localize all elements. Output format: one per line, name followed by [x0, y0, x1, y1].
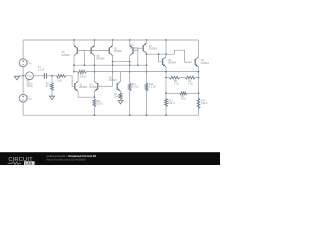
voltage source V1 8.4V: [19, 59, 27, 67]
node T2c on LL: [94, 71, 96, 73]
node T3c on LL: [112, 71, 114, 73]
wire T3 collector column: [112, 55, 114, 86]
wire T5 base: [138, 47, 143, 49]
node T4c on LL: [129, 71, 131, 73]
wire T4T5 base column down: [137, 48, 139, 65]
node T5 col on AB: [146, 64, 148, 66]
resistor R9 6.8k: [78, 70, 87, 73]
wire R10 to rail: [93, 107, 95, 115]
resistor R5 47k vertical: [51, 83, 54, 91]
node Q8 collector cross: [165, 53, 167, 55]
svg-text:8.4 V: 8.4 V: [27, 99, 33, 101]
label V1 value: [27, 61, 33, 66]
wire Q8 base: [159, 54, 163, 62]
transistor Q7 pnp: [143, 43, 146, 53]
transistor Q3 pnp: [109, 45, 112, 55]
node T1c on AB: [73, 64, 75, 66]
wire base tap down: [83, 51, 85, 66]
node R10 rail: [94, 114, 96, 116]
wire T1 collector column: [73, 55, 75, 71]
wire Q8 collector to rail: [165, 40, 167, 57]
node rail T3 emitter: [112, 39, 114, 41]
wire T5 collector column: [146, 53, 148, 115]
label R5 value: [46, 83, 52, 88]
wire mid node to ground stub: [19, 75, 24, 77]
svg-text:2N3906: 2N3906: [62, 55, 71, 57]
label R10 value: [97, 101, 103, 106]
wire T6 collector up: [77, 72, 79, 82]
wire V3 to C7: [33, 75, 44, 77]
resistor R10 tail: [93, 99, 96, 107]
wire long line seg1: [74, 71, 78, 73]
resistor R14 100: [197, 98, 200, 109]
label R13 value: [168, 101, 174, 106]
wire R8 R3 link: [180, 77, 186, 79]
wire rail to T1 emitter: [73, 40, 75, 46]
resistor R6 1k horizontal: [56, 74, 66, 77]
node rail T4 emitter: [129, 39, 131, 41]
resistor R13 100: [165, 99, 168, 107]
node rail T5 emitter: [146, 39, 148, 41]
node T4c on A2: [129, 61, 131, 63]
label R7 value: [114, 94, 120, 99]
label Q2b: [109, 77, 118, 82]
label C7 value: [38, 67, 45, 71]
label Q7: [149, 46, 158, 51]
wire rail to T3 emitter: [112, 40, 114, 46]
svg-text:R13: R13: [168, 101, 173, 103]
svg-text:1 kΩ: 1 kΩ: [174, 84, 179, 86]
wire T2 collector column: [93, 55, 95, 81]
label R8 value: [174, 81, 179, 86]
transistor Q8 npn: [163, 57, 166, 67]
node T4c on AB: [129, 64, 131, 66]
wire long line seg2: [87, 71, 199, 73]
node R11 rail: [129, 114, 131, 116]
svg-text:R10: R10: [97, 101, 102, 103]
svg-text:6.8 kΩ: 6.8 kΩ: [80, 76, 87, 78]
svg-text:1kHz): 1kHz): [27, 86, 33, 88]
transistor Q6 pnp: [91, 45, 94, 55]
wire T8 collector up: [120, 72, 122, 82]
label R12 value: [149, 84, 156, 89]
svg-text:R12: R12: [149, 84, 154, 86]
wire T6 emitter down: [78, 91, 94, 97]
signal source V3 sine: [26, 72, 34, 80]
svg-text:2.2 kΩ: 2.2 kΩ: [132, 87, 139, 89]
wire base line row1: [77, 50, 109, 52]
node tail junction: [94, 96, 96, 98]
wire rail to T2 emitter: [93, 40, 95, 46]
node Q8c rail: [165, 39, 167, 41]
svg-text:2N3906: 2N3906: [114, 51, 123, 53]
label R3 value: [188, 81, 193, 86]
svg-text:220 Ω: 220 Ω: [97, 104, 103, 106]
svg-text:0.1 µF: 0.1 µF: [38, 69, 45, 71]
wire rail to T5 emitter: [146, 40, 148, 43]
transistor Q9 npn output: [195, 57, 198, 67]
wire V1 to mid node: [22, 67, 24, 95]
label Q8: [168, 60, 177, 65]
transistor Q1 npn: [75, 81, 78, 91]
wire T7 base right: [98, 85, 113, 87]
node Q8 base tap: [158, 53, 160, 55]
svg-text:2N3904: 2N3904: [201, 63, 210, 65]
resistor R11 2.2k: [128, 83, 131, 91]
svg-text:1 kΩ: 1 kΩ: [188, 84, 193, 86]
ground below R7: [118, 100, 123, 104]
transistor Q4 pnp: [130, 45, 133, 55]
label Q1: [79, 85, 88, 90]
wire top supply rail: [23, 39, 198, 41]
node Q8e on LL: [165, 71, 167, 73]
wire Q9 emitter column: [198, 67, 200, 115]
circuitlab logo: [8, 157, 35, 166]
wire bias line: [147, 50, 192, 62]
wire bottom supply rail: [23, 114, 198, 116]
wire node down to R5: [51, 76, 53, 83]
wire R7 to ground: [120, 99, 122, 100]
svg-text:100 Ω: 100 Ω: [114, 97, 120, 99]
node Q9e on LL: [198, 71, 200, 73]
svg-text:2N3906: 2N3906: [149, 49, 158, 51]
label R9 value: [80, 74, 87, 79]
wire R5 to ground: [51, 91, 53, 97]
label R4 value: [181, 96, 186, 101]
transistor Q2 npn: [94, 81, 97, 91]
svg-text:2N3904: 2N3904: [109, 80, 118, 82]
label R6 value: [57, 78, 62, 83]
label R11 value: [132, 84, 139, 89]
transistor Q8t npn: [117, 81, 120, 91]
node input bias junction: [51, 75, 53, 77]
node T3c on AB: [112, 64, 114, 66]
node R13 rail: [165, 114, 167, 116]
label Q4: [130, 45, 139, 50]
ground below R5: [50, 96, 55, 100]
svg-text:100 Ω: 100 Ω: [201, 103, 207, 105]
wire line E right: [187, 92, 199, 94]
svg-text:47 kΩ: 47 kΩ: [46, 86, 52, 88]
wire rail to T4 emitter: [129, 40, 131, 46]
footer attribution text: [47, 154, 97, 162]
svg-text:2N3906: 2N3906: [96, 59, 105, 61]
wire line E left: [166, 92, 180, 94]
wire line A2: [113, 61, 130, 63]
wire Q8 emitter down: [165, 67, 167, 115]
svg-text:2N3904: 2N3904: [89, 87, 98, 89]
svg-text:R14: R14: [201, 100, 206, 102]
wire T4 collector column: [129, 55, 131, 83]
svg-text:1 kΩ: 1 kΩ: [57, 81, 62, 83]
svg-text:100 Ω: 100 Ω: [168, 103, 174, 105]
wire R11 to rail: [129, 91, 131, 115]
node R8 line left: [165, 77, 167, 79]
svg-text:68 Ω: 68 Ω: [181, 99, 186, 101]
transistor Q5 pnp: [74, 45, 77, 55]
wire C7 to R6: [46, 75, 56, 77]
label Q9: [201, 60, 210, 65]
node R12 rail: [146, 114, 148, 116]
wire T7 emitter down: [93, 91, 95, 97]
wire Q9 collector to rail corner: [198, 40, 200, 57]
ground left reference: [14, 76, 19, 80]
label Q6: [96, 56, 105, 61]
wire mid node to V3: [23, 75, 26, 77]
svg-text:2.2 kΩ: 2.2 kΩ: [149, 87, 156, 89]
svg-text:R11: R11: [132, 84, 137, 86]
footer bar: [0, 152, 220, 165]
wire line AB: [74, 64, 147, 66]
node T5 col on LL: [146, 71, 148, 73]
node rail T1 emitter: [73, 39, 75, 41]
node base column on AB: [137, 64, 139, 66]
resistor R7 emitter: [119, 93, 122, 99]
svg-text:2N3904: 2N3904: [79, 87, 88, 89]
label Q5: [62, 52, 71, 57]
node R3 line right: [198, 77, 200, 79]
svg-text:LAB: LAB: [25, 161, 33, 165]
voltage source V2 8.4V: [19, 94, 27, 102]
node T3c on A2: [112, 61, 114, 63]
label Q3: [114, 49, 123, 54]
node rail T2 emitter: [94, 39, 96, 41]
node mid supply junction: [22, 75, 24, 77]
svg-text:http://circuitlab.com/c/25x4d3: http://circuitlab.com/c/25x4d3bj8d/: [47, 157, 86, 161]
node Q8e on E: [165, 92, 167, 94]
wire T8 emitter down: [120, 91, 122, 93]
label V2 value: [27, 97, 33, 102]
wire T4 base jog: [133, 48, 138, 50]
wire R6 jog to T6 base: [66, 76, 75, 87]
resistor R8 1k: [169, 76, 179, 79]
svg-text:2N3904: 2N3904: [168, 63, 177, 65]
svg-text:8.4 V: 8.4 V: [27, 64, 33, 66]
capacitor C7 0.1uF: [44, 73, 46, 78]
wire R8 line left: [166, 77, 169, 79]
label R14 value: [201, 100, 207, 105]
node T2c on AB: [94, 64, 96, 66]
node base tap on AB: [83, 64, 85, 66]
resistor R12 2.2k: [145, 83, 148, 91]
wire R3 line right: [195, 77, 198, 79]
resistor R3 1k: [185, 76, 195, 79]
wire V+ column top: [22, 40, 24, 59]
label V3 value: [27, 81, 34, 88]
label Q2a: [89, 85, 98, 89]
svg-text:pokkeyamada / Unnamed Circuit: pokkeyamada / Unnamed Circuit #9: [47, 154, 97, 158]
node T1c on LL: [73, 71, 75, 73]
node Q9e on E: [198, 92, 200, 94]
wire tail down: [93, 97, 95, 99]
node T5c junction: [146, 53, 148, 55]
wire V2 to bottom rail: [22, 102, 24, 115]
resistor R4 68: [180, 92, 187, 95]
